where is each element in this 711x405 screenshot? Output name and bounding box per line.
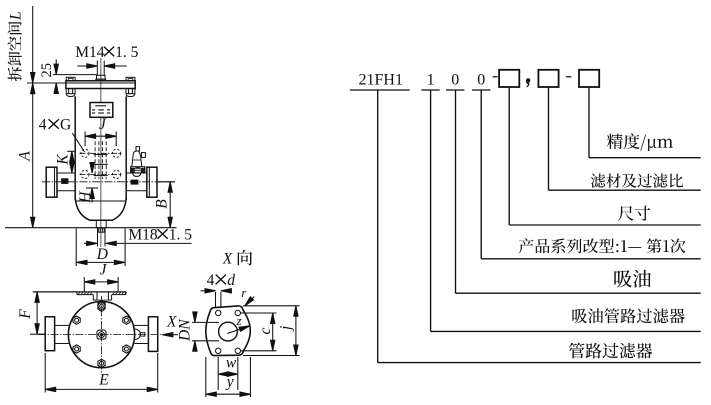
svg-text:4: 4	[207, 272, 215, 289]
svg-text:M18: M18	[128, 227, 158, 244]
svg-text:J: J	[100, 261, 108, 278]
svg-text:1. 5: 1. 5	[169, 227, 193, 244]
svg-text:E: E	[98, 371, 109, 388]
svg-text:L: L	[8, 11, 25, 21]
svg-text:X: X	[166, 314, 177, 331]
svg-text:0: 0	[477, 72, 485, 89]
svg-text:X: X	[222, 251, 233, 268]
svg-text:25: 25	[39, 63, 55, 78]
svg-text:G: G	[60, 117, 71, 134]
svg-text:K: K	[55, 154, 72, 166]
svg-text:21FH1: 21FH1	[359, 72, 403, 89]
svg-text:F: F	[17, 309, 34, 320]
svg-text:M14: M14	[75, 44, 105, 61]
svg-text:1: 1	[427, 72, 435, 89]
svg-text:DN: DN	[177, 318, 194, 342]
svg-text:H: H	[77, 191, 94, 204]
svg-text:0: 0	[451, 72, 459, 89]
svg-text:z: z	[236, 313, 242, 328]
svg-text:B: B	[154, 199, 171, 209]
svg-text:w: w	[226, 354, 237, 371]
svg-text:J: J	[99, 116, 107, 133]
svg-text:1. 5: 1. 5	[115, 44, 139, 61]
svg-text:4: 4	[39, 117, 47, 134]
svg-text:y: y	[225, 373, 234, 390]
svg-text:A: A	[16, 151, 33, 162]
svg-text:c: c	[257, 327, 274, 334]
svg-text:d: d	[227, 272, 235, 289]
